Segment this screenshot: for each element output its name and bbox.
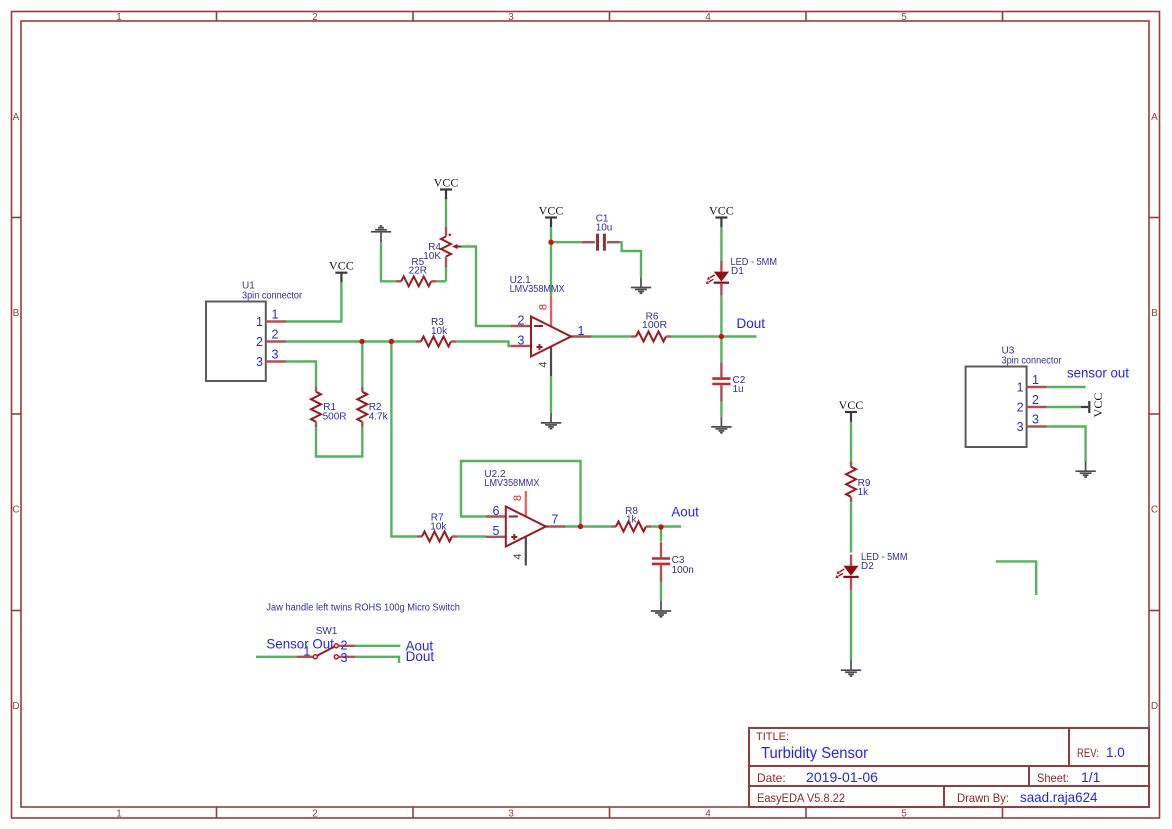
- svg-text:4: 4: [705, 12, 711, 23]
- svg-text:4: 4: [538, 361, 550, 367]
- svg-text:Aout: Aout: [671, 504, 699, 520]
- svg-text:10K: 10K: [423, 251, 441, 262]
- svg-text:Sheet:: Sheet:: [1037, 771, 1069, 785]
- svg-text:10k: 10k: [431, 326, 448, 337]
- svg-text:1: 1: [272, 307, 279, 321]
- svg-text:Jaw handle left twins ROHS 100: Jaw handle left twins ROHS 100g Micro Sw…: [266, 602, 460, 613]
- svg-text:3pin connector: 3pin connector: [242, 291, 303, 302]
- svg-text:1: 1: [116, 809, 122, 820]
- svg-text:saad.raja624: saad.raja624: [1020, 789, 1098, 805]
- svg-text:C: C: [12, 505, 19, 516]
- svg-text:2: 2: [312, 12, 318, 23]
- svg-text:sensor out: sensor out: [1067, 365, 1129, 381]
- svg-text:3pin connector: 3pin connector: [1002, 355, 1063, 366]
- svg-text:A: A: [1151, 112, 1158, 123]
- svg-text:1: 1: [1017, 380, 1024, 394]
- svg-text:5: 5: [493, 524, 500, 538]
- svg-text:B: B: [13, 308, 20, 319]
- svg-text:3: 3: [518, 333, 525, 347]
- svg-text:10u: 10u: [596, 223, 613, 234]
- svg-text:3: 3: [272, 347, 279, 361]
- svg-text:1: 1: [116, 12, 122, 23]
- svg-text:22R: 22R: [409, 266, 427, 277]
- svg-text:Sensor Out: Sensor Out: [266, 636, 334, 652]
- svg-text:1: 1: [256, 315, 263, 329]
- svg-text:4.7k: 4.7k: [369, 412, 389, 423]
- svg-text:1u: 1u: [733, 384, 744, 395]
- svg-text:4: 4: [705, 809, 711, 820]
- svg-text:6: 6: [493, 504, 500, 518]
- svg-text:2: 2: [312, 809, 318, 820]
- svg-text:500R: 500R: [323, 412, 347, 423]
- svg-text:Date:: Date:: [757, 771, 786, 785]
- svg-text:1/1: 1/1: [1081, 769, 1101, 785]
- svg-text:1.0: 1.0: [1106, 745, 1125, 760]
- svg-text:2: 2: [272, 327, 279, 341]
- svg-text:5: 5: [901, 12, 907, 23]
- svg-text:2: 2: [1032, 393, 1039, 407]
- svg-text:LMV358MMX: LMV358MMX: [510, 284, 565, 295]
- svg-text:LMV358MMX: LMV358MMX: [484, 478, 539, 489]
- svg-text:B: B: [1151, 308, 1158, 319]
- svg-text:D: D: [1151, 701, 1158, 712]
- svg-text:7: 7: [551, 513, 558, 527]
- svg-text:4: 4: [512, 553, 524, 559]
- svg-text:REV:: REV:: [1077, 746, 1099, 760]
- svg-text:D2: D2: [861, 561, 874, 572]
- svg-text:2019-01-06: 2019-01-06: [806, 769, 878, 785]
- svg-text:D: D: [12, 701, 19, 712]
- svg-text:8: 8: [538, 304, 550, 310]
- svg-text:3: 3: [1032, 413, 1039, 427]
- svg-text:10k: 10k: [430, 522, 447, 533]
- svg-text:A: A: [13, 112, 20, 123]
- svg-text:C: C: [1151, 505, 1158, 516]
- svg-text:100R: 100R: [642, 320, 667, 331]
- svg-text:1k: 1k: [858, 487, 870, 498]
- svg-text:100n: 100n: [672, 565, 694, 576]
- svg-text:Dout: Dout: [737, 315, 766, 331]
- svg-text:D1: D1: [731, 266, 744, 277]
- svg-text:3: 3: [508, 809, 514, 820]
- svg-text:Drawn By:: Drawn By:: [957, 791, 1009, 805]
- svg-text:1: 1: [578, 324, 585, 338]
- svg-text:3: 3: [341, 651, 348, 665]
- svg-text:1k: 1k: [626, 515, 638, 526]
- svg-text:8: 8: [512, 495, 524, 501]
- svg-text:2: 2: [518, 313, 525, 327]
- svg-text:1: 1: [1032, 373, 1039, 387]
- svg-text:2: 2: [1017, 400, 1024, 414]
- svg-text:5: 5: [901, 809, 907, 820]
- svg-text:EasyEDA V5.8.22: EasyEDA V5.8.22: [757, 791, 845, 805]
- svg-text:3: 3: [256, 355, 263, 369]
- svg-text:TITLE:: TITLE:: [756, 731, 789, 743]
- svg-text:3: 3: [1017, 420, 1024, 434]
- svg-text:Turbidity Sensor: Turbidity Sensor: [761, 745, 869, 762]
- svg-text:2: 2: [256, 335, 263, 349]
- svg-text:3: 3: [508, 12, 514, 23]
- svg-text:Dout: Dout: [406, 648, 435, 664]
- svg-text:VCC: VCC: [1091, 393, 1105, 418]
